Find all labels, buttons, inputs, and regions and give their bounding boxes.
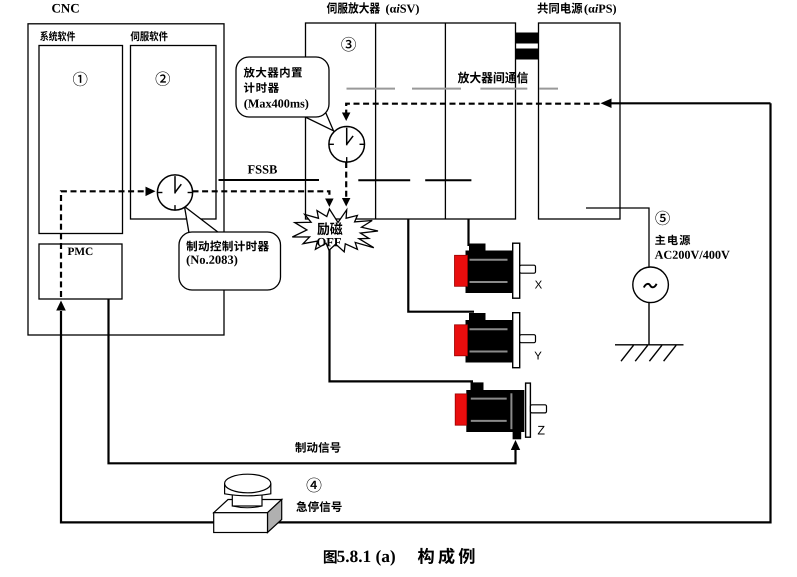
comm gray line seg2 (412, 88, 461, 90)
label 放大器间通信 (458, 72, 528, 84)
brake control timer clock symbol (157, 175, 192, 210)
dashed wire amp timer to star (345, 162, 347, 198)
motor X (469, 244, 486, 252)
internal bus segment 2 (425, 179, 471, 181)
node 2 circled (156, 72, 170, 86)
internal bus segment 1 (358, 179, 410, 181)
emergency stop button (214, 500, 282, 513)
arrow down into star right (342, 198, 351, 207)
label 伺服软件 (131, 31, 168, 41)
label Z (538, 426, 545, 435)
arrow down into amp timer clock (342, 113, 351, 122)
bubble2 text (No.2083) (187, 255, 238, 266)
label CNC (52, 4, 79, 13)
wire servo to motor X (467, 219, 469, 246)
label OFF (317, 238, 341, 246)
label PMC (68, 248, 93, 256)
arrow into PSU (left) (601, 99, 612, 109)
comm gray line seg1 (347, 88, 396, 90)
bubble pointer to amp timer (299, 104, 334, 131)
label 制动信号 (295, 442, 340, 453)
bubble1 text 计时器 (244, 82, 279, 93)
label 主电源 (655, 235, 690, 246)
servo amp divider 2 (444, 23, 446, 219)
connector bar 1 (516, 33, 539, 44)
common power supply box (539, 23, 621, 219)
bubble pointer to brake timer (185, 207, 224, 237)
connector bar 2 (516, 49, 539, 60)
label X (535, 281, 542, 289)
servo amp divider 1 (375, 23, 377, 219)
bubble amplifier built-in timer (236, 57, 329, 117)
motor Y (469, 313, 486, 321)
label Y (535, 352, 542, 360)
label 励磁 (317, 222, 342, 235)
box system-software (39, 46, 123, 234)
box servo-software (131, 46, 217, 220)
arrow into PMC (56, 301, 66, 311)
wire brake signal (109, 299, 516, 463)
comm gray line seg4 (539, 88, 558, 90)
label 共同电源(αiPS) (538, 3, 583, 14)
label 伺服放大器(αiSV) (327, 2, 380, 14)
wire PSU to main power (586, 208, 649, 267)
motor Z (471, 382, 484, 390)
arrow into motor Z brake (511, 440, 520, 450)
wire servo to motor Y (408, 219, 474, 312)
caption 图5.8.1 (a) 构成例 (324, 550, 337, 563)
bubble2 text 制动控制计时器 (186, 241, 269, 252)
CNC outer box (28, 24, 224, 335)
wire star to motor Z (330, 248, 474, 381)
dashed wire PMC to brake timer (61, 191, 149, 297)
node 1 circled (73, 72, 87, 86)
label AC200V/400V (655, 251, 730, 259)
wire AC to ground (648, 303, 650, 345)
dashed wire right loop to amp (346, 104, 599, 113)
arrow into brake timer clock (146, 187, 156, 197)
bubble1 text 放大器内置 (244, 67, 302, 78)
comm gray line seg3 (480, 88, 527, 90)
ground symbol (615, 345, 684, 361)
servo amplifier box (306, 23, 516, 219)
label 系统软件 (40, 31, 75, 41)
wire right loop (emergency stop) (61, 103, 771, 522)
FSSB wire (219, 179, 320, 181)
label 急停信号 (296, 501, 341, 512)
node 3 circled (341, 37, 356, 52)
bubble brake control timer (179, 232, 281, 290)
wire solid top right (611, 102, 771, 104)
starburst excitation OFF (292, 209, 378, 252)
dashed wire clock1 to star (193, 191, 330, 198)
label FSSB (248, 165, 277, 173)
AC source symbol (633, 267, 669, 303)
box PMC (39, 244, 122, 299)
node 5 circled (655, 211, 669, 225)
amplifier built-in timer clock symbol (329, 127, 365, 163)
arrow down into star left (325, 199, 334, 208)
bubble1 text (Max400ms) (244, 99, 308, 110)
node 4 circled (307, 478, 322, 493)
